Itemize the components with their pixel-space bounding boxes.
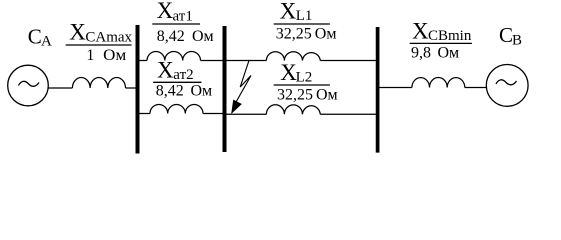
inductor XCAmax (72, 78, 125, 89)
svg-text:C: C (499, 23, 513, 47)
svg-text:X: X (69, 20, 86, 45)
value 9,8 Ом (411, 44, 459, 61)
label XCAmax (66, 20, 133, 46)
svg-text:8,42: 8,42 (156, 82, 184, 99)
label CA (28, 24, 52, 49)
label XL1 (274, 0, 330, 24)
wire (380, 87, 412, 89)
svg-text:L2: L2 (296, 70, 313, 86)
value 32,25 Ом (277, 86, 338, 103)
svg-text:Ом: Ом (438, 44, 460, 61)
svg-text:ат1: ат1 (173, 8, 193, 24)
bus bar 1 (136, 25, 140, 154)
svg-text:32,25: 32,25 (277, 86, 313, 103)
svg-text:Ом: Ом (103, 47, 126, 64)
label XL2 (274, 60, 330, 86)
svg-text:L1: L1 (296, 8, 313, 24)
svg-text:X: X (412, 19, 429, 44)
wire (203, 113, 223, 115)
label XCBmin (410, 19, 472, 45)
wire (465, 87, 487, 89)
value 8,42 Ом (156, 82, 212, 99)
svg-text:X: X (157, 0, 174, 23)
svg-text:Ом: Ом (191, 82, 213, 99)
svg-text:9,8: 9,8 (411, 44, 431, 61)
inductor XAT1 (147, 51, 201, 60)
svg-text:A: A (41, 34, 52, 50)
svg-text:32,25: 32,25 (276, 25, 312, 42)
svg-text:Ом: Ом (192, 28, 214, 45)
value 1 Ом (86, 47, 126, 64)
svg-text:ат2: ат2 (173, 67, 193, 83)
wire (320, 60, 376, 62)
wire (201, 60, 224, 62)
label CB (499, 23, 522, 48)
svg-text:X: X (280, 0, 297, 23)
label XAT1 (152, 0, 200, 24)
svg-text:B: B (512, 32, 522, 48)
wire (140, 60, 148, 62)
svg-text:CAmax: CAmax (85, 30, 132, 46)
svg-text:1: 1 (86, 47, 94, 64)
value 32,25 Ом (276, 25, 337, 42)
source CB (486, 65, 528, 107)
inductor XAT2 (150, 104, 203, 113)
svg-text:C: C (28, 24, 42, 48)
bus bar 2 (223, 26, 227, 152)
wire (227, 60, 267, 62)
svg-text:Ом: Ом (315, 25, 337, 42)
wire (48, 87, 72, 89)
wire (320, 113, 376, 115)
wire (227, 113, 267, 115)
source CA (8, 65, 49, 106)
value 8,42 Ом (157, 28, 214, 45)
label XAT2 (153, 58, 201, 83)
bus bar 3 (376, 27, 380, 153)
svg-text:X: X (157, 58, 174, 83)
wire (126, 87, 137, 89)
inductor XCBmin (412, 78, 465, 88)
inductor XL1 (266, 52, 320, 61)
svg-text:Ом: Ом (316, 86, 338, 103)
fault bolt (232, 61, 251, 113)
svg-text:8,42: 8,42 (157, 28, 185, 45)
inductor XL2 (266, 105, 320, 115)
svg-text:CBmin: CBmin (428, 28, 472, 44)
wire (140, 113, 151, 115)
